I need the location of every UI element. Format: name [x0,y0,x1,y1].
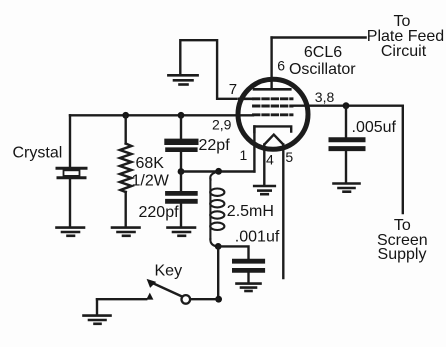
ground key [84,316,111,324]
capacitor C1 22pf [168,115,196,171]
svg-text:7: 7 [229,81,237,98]
tube V1 6CL6 envelope [238,79,308,149]
svg-text:Key: Key [155,263,183,280]
ground pin7 [168,75,197,84]
svg-text:5: 5 [285,149,293,165]
label To Plate Feed Circuit [367,13,444,60]
wire screen line pins 3,8 [292,106,403,213]
node junction bus/22pf [178,112,185,119]
key switch S1 [97,279,218,315]
svg-text:Oscillator: Oscillator [289,61,356,78]
wire grid-leak node to cathode pin 1 [181,170,254,172]
wire to plate feed [272,36,366,38]
svg-text:Circuit: Circuit [381,43,427,60]
svg-text:2,9: 2,9 [212,117,232,133]
ground pin 4 [254,186,275,194]
wire pin 5 lead [282,145,284,279]
ground .005uf [334,184,360,192]
node junction inductor top [215,168,222,175]
wire pin 1 cathode lead [253,126,255,171]
svg-text:Supply: Supply [378,246,427,263]
ground 220pf [168,228,196,236]
node junction bus/68K [122,112,129,119]
svg-text:22pf: 22pf [199,137,231,154]
svg-text:.001uf: .001uf [235,229,280,246]
ground .001uf [237,284,261,291]
svg-text:6CL6: 6CL6 [304,44,342,61]
node junction .005uf [343,102,350,109]
tube cathode (pin 1) [254,126,291,132]
tube grid 1 (pin 7) [239,98,292,101]
resistor R1 68K 1/2W [120,115,131,226]
svg-text:.005uf: .005uf [352,119,397,136]
svg-text:220pf: 220pf [139,204,180,221]
node junction inductor bottom [215,243,222,250]
inductor L1 2.5mH [210,172,224,247]
wire grid bus [70,114,253,116]
svg-text:68K: 68K [136,155,165,172]
crystal Y1 [57,115,86,226]
capacitor C2 220pf [168,172,196,227]
ground 68K [112,228,140,236]
wire pin 4 lead [263,145,265,186]
svg-text:3,8: 3,8 [315,89,335,105]
capacitor C4 .005uf [331,106,363,183]
tube grid 2 screen (pins 3,8) [254,105,293,108]
wire inductor bottom to key [217,246,219,299]
svg-text:2.5mH: 2.5mH [227,203,274,220]
wire pin 7 to ground path [180,40,236,99]
svg-text:Crystal: Crystal [13,145,63,162]
ground crystal [57,228,85,236]
capacitor C3 .001uf [234,261,262,282]
wire to .001uf [218,246,248,258]
svg-text:1/2W: 1/2W [132,172,170,189]
svg-text:6: 6 [277,57,285,73]
label To Screen Supply [377,217,428,263]
svg-text:4: 4 [266,152,274,168]
svg-text:1: 1 [240,147,248,163]
tube grid 3 (pins 2,9) [254,113,293,116]
node junction 22pf/220pf [178,168,185,175]
tube plate [254,38,290,90]
tube heater [264,135,283,146]
node junction key/inductor [215,296,222,303]
label 6CL6 Oscillator [289,44,356,78]
